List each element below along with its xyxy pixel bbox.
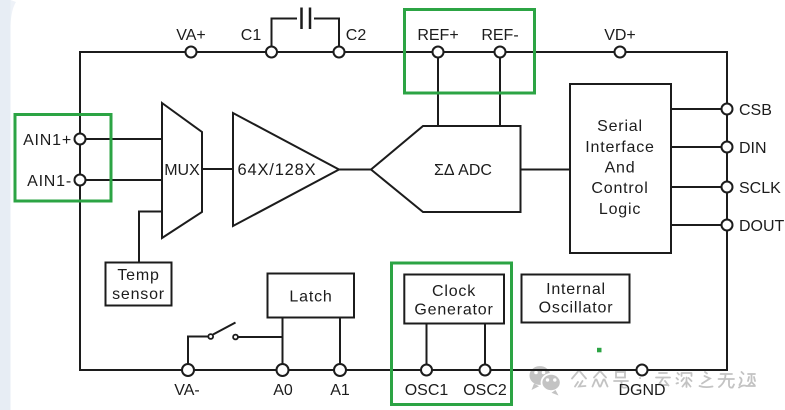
wire REF+ to ADC bbox=[437, 52, 439, 126]
clock generator box bbox=[404, 275, 504, 324]
svg-text:And: And bbox=[605, 160, 636, 177]
terminal VA+ bbox=[186, 47, 197, 58]
terminal VA- bbox=[182, 364, 194, 376]
svg-text:DIN: DIN bbox=[739, 140, 767, 157]
terminal OSC1 bbox=[421, 365, 432, 376]
svg-text:A1: A1 bbox=[330, 382, 350, 399]
wire latch to A1 bbox=[339, 318, 341, 371]
wire AIN1- to MUX bbox=[80, 179, 162, 181]
svg-text:Temp: Temp bbox=[117, 267, 159, 284]
svg-text:Internal: Internal bbox=[546, 281, 606, 298]
terminal AIN1+ bbox=[75, 134, 86, 145]
latch box bbox=[268, 274, 355, 318]
svg-text:DOUT: DOUT bbox=[739, 218, 785, 235]
switch S1 wire from VA- bbox=[188, 337, 208, 365]
svg-text:REF-: REF- bbox=[481, 27, 518, 44]
highlight box AIN1 (green) bbox=[15, 115, 111, 202]
terminal REF+ bbox=[433, 47, 444, 58]
svg-text:Logic: Logic bbox=[599, 201, 641, 218]
chip outer border bbox=[80, 52, 727, 370]
svg-text:64X/128X: 64X/128X bbox=[238, 161, 317, 179]
serial interface and control logic box U1 bbox=[570, 84, 671, 253]
svg-text:AIN1-: AIN1- bbox=[27, 173, 72, 190]
sigma-delta ADC pentagon bbox=[371, 126, 521, 212]
terminal DIN bbox=[722, 142, 733, 153]
svg-text:Latch: Latch bbox=[289, 289, 332, 306]
serial interface label bbox=[585, 118, 654, 218]
wire latch to A0 bbox=[282, 318, 284, 371]
switch lever bbox=[213, 323, 236, 335]
capacitor loop wire C2 side bbox=[314, 19, 339, 53]
terminal REF- bbox=[495, 47, 506, 58]
wire serial to DOUT bbox=[671, 224, 727, 226]
terminal VD+ bbox=[615, 47, 626, 58]
terminal A0 bbox=[277, 364, 289, 376]
terminal A1 bbox=[334, 364, 346, 376]
svg-text:VD+: VD+ bbox=[604, 27, 636, 44]
wire MUX to amplifier bbox=[202, 168, 233, 170]
svg-text:Oscillator: Oscillator bbox=[539, 300, 614, 317]
svg-text:CSB: CSB bbox=[739, 102, 772, 119]
left page gutter strip bbox=[0, 0, 11, 410]
switch left contact bbox=[208, 334, 213, 339]
svg-text:A0: A0 bbox=[273, 382, 293, 399]
svg-text:SCLK: SCLK bbox=[739, 180, 781, 197]
capacitor plates bbox=[302, 8, 311, 30]
svg-text:Serial: Serial bbox=[597, 118, 643, 135]
svg-text:Generator: Generator bbox=[414, 302, 493, 319]
terminal DOUT bbox=[722, 220, 733, 231]
clock generator label bbox=[414, 283, 493, 319]
svg-text:AIN1+: AIN1+ bbox=[23, 132, 72, 149]
watermark logo (wechat bubbles) bbox=[530, 366, 561, 395]
highlight box REF (green) bbox=[405, 10, 535, 94]
wire serial to SCLK bbox=[671, 186, 727, 188]
temp sensor label bbox=[112, 267, 165, 303]
wire switch to A0 line bbox=[238, 336, 283, 338]
wire serial to CSB bbox=[671, 108, 727, 110]
svg-text:ΣΔ ADC: ΣΔ ADC bbox=[434, 162, 492, 179]
MUX trapezoid bbox=[162, 103, 202, 238]
svg-text:MUX: MUX bbox=[164, 162, 200, 179]
capacitor loop wire C1 side bbox=[272, 19, 298, 53]
wire clock generator to OSC1 bbox=[426, 323, 428, 371]
highlight box clock generator (green) bbox=[392, 263, 512, 405]
svg-text:sensor: sensor bbox=[112, 286, 165, 303]
svg-text:OSC2: OSC2 bbox=[463, 382, 507, 399]
terminal SCLK bbox=[722, 182, 733, 193]
svg-text:VA-: VA- bbox=[174, 382, 199, 399]
terminal C1 bbox=[266, 47, 277, 58]
svg-text:DGND: DGND bbox=[618, 382, 665, 399]
wire AIN1+ to MUX bbox=[80, 138, 162, 140]
amplifier 64X/128X triangle bbox=[233, 113, 339, 226]
svg-text:C1: C1 bbox=[241, 27, 262, 44]
temp sensor box bbox=[106, 263, 172, 306]
wire temp sensor to MUX bbox=[139, 212, 162, 263]
wire amplifier to ADC bbox=[339, 169, 371, 171]
wire serial to DIN bbox=[671, 146, 727, 148]
terminal C2 bbox=[334, 47, 345, 58]
wire ADC to serial interface bbox=[521, 169, 571, 171]
terminal DGND bbox=[637, 365, 648, 376]
svg-text:Clock: Clock bbox=[432, 283, 476, 300]
svg-text:OSC1: OSC1 bbox=[405, 382, 449, 399]
svg-text:Interface: Interface bbox=[585, 139, 654, 156]
svg-text:VA+: VA+ bbox=[176, 27, 206, 44]
svg-text:REF+: REF+ bbox=[417, 27, 458, 44]
svg-text:C2: C2 bbox=[346, 27, 367, 44]
watermark text 公众号：云深之无迹 (simulated glyphs) bbox=[572, 372, 755, 388]
svg-text:Control: Control bbox=[591, 180, 648, 197]
internal oscillator box bbox=[522, 275, 630, 323]
internal oscillator label bbox=[539, 281, 614, 317]
terminal AIN1- bbox=[75, 175, 86, 186]
terminal OSC2 bbox=[480, 365, 491, 376]
wire clock generator to OSC2 bbox=[484, 323, 486, 371]
green dot marker bbox=[597, 348, 602, 353]
switch right contact bbox=[233, 335, 238, 340]
wire REF- to ADC bbox=[499, 52, 501, 126]
terminal CSB bbox=[722, 104, 733, 115]
